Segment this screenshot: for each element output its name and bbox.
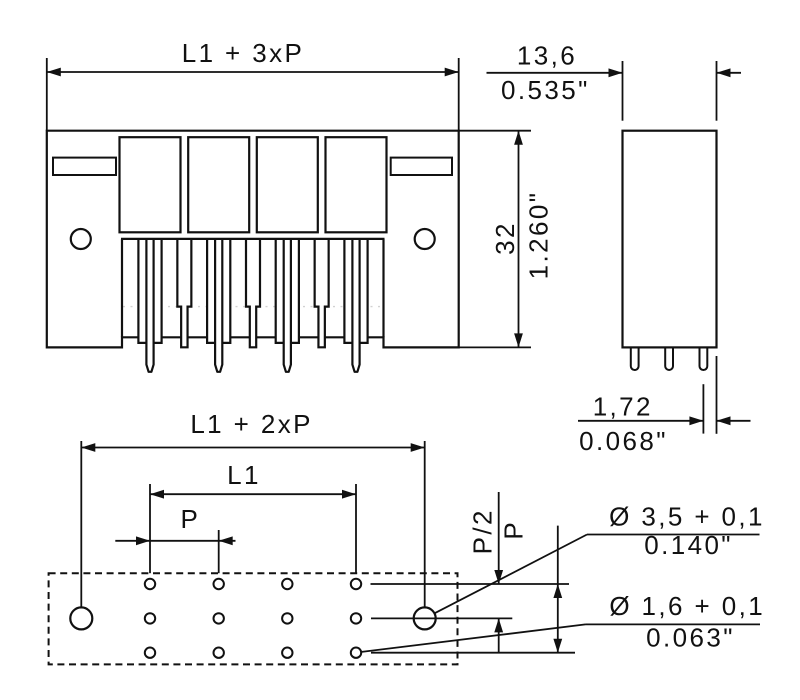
side view: solder pin 2 bbox=[665, 347, 673, 370]
footprint: solder hole col3 row2 bbox=[282, 613, 292, 623]
dim P: right tail line bbox=[219, 540, 236, 542]
footprint: solder hole col1 row3 bbox=[145, 648, 155, 658]
dim P vertical: up arrow bbox=[553, 584, 562, 598]
footprint: solder hole col4 row3 bbox=[351, 648, 361, 658]
front view: solder pin 1 bbox=[146, 239, 153, 372]
dim 13,6: right tail line bbox=[717, 72, 742, 74]
side view: housing body bbox=[623, 131, 717, 348]
dim 1,72: right tail line bbox=[717, 420, 751, 422]
dim P: mid line bbox=[150, 540, 219, 542]
front view: comb right wall bbox=[382, 239, 384, 337]
svg-text:P: P bbox=[499, 520, 529, 540]
front view: comb left wall bbox=[121, 239, 123, 337]
front view: solder pin 2 bbox=[215, 239, 222, 372]
front view: stepped peg 3 bbox=[315, 239, 329, 347]
dim P/2: lower line bbox=[498, 618, 500, 653]
svg-text:13,6: 13,6 bbox=[517, 40, 577, 70]
footprint: solder hole col3 row3 bbox=[282, 648, 292, 658]
label Ø1,6: underline bbox=[586, 623, 761, 625]
svg-text:L1: L1 bbox=[227, 460, 261, 490]
dim L1+3xP: right extension line bbox=[458, 58, 460, 131]
dim P: right arrow bbox=[219, 536, 233, 545]
dim 1,72: left tail line bbox=[578, 420, 703, 422]
dim 1,72: right arrow bbox=[717, 416, 731, 425]
dim 32: bottom extension line bbox=[459, 346, 531, 348]
dim 13,6: left extension line bbox=[622, 61, 624, 121]
front view: comb top edge line bbox=[121, 238, 385, 240]
svg-text:1,72: 1,72 bbox=[593, 391, 653, 421]
svg-text:P/2: P/2 bbox=[468, 508, 498, 554]
dim L1+2xP: dimension line bbox=[81, 447, 424, 449]
dim P/2: up arrow bbox=[494, 618, 503, 632]
dim 32: bottom arrow bbox=[514, 333, 523, 347]
footprint: solder hole col3 row1 bbox=[282, 579, 292, 589]
front view: contact sleeve 3 bbox=[276, 239, 299, 343]
footprint: solder hole col1 row1 bbox=[145, 579, 155, 589]
svg-text:0.535": 0.535" bbox=[501, 75, 590, 105]
footprint: solder hole col2 row2 bbox=[214, 613, 224, 623]
dim L1+3xP: left extension line bbox=[46, 58, 48, 131]
svg-text:P: P bbox=[181, 504, 201, 534]
footprint: left mounting hole bbox=[70, 607, 92, 629]
front view: plug block 2 bbox=[188, 137, 249, 232]
dim 32: top arrow bbox=[514, 131, 523, 145]
dim L1: right arrow bbox=[342, 490, 356, 499]
svg-text:0.140": 0.140" bbox=[644, 530, 733, 560]
front view: stepped peg 1 bbox=[177, 239, 191, 347]
svg-text:Ø 1,6 + 0,1: Ø 1,6 + 0,1 bbox=[609, 591, 765, 621]
front view: solder pin 4 bbox=[352, 239, 359, 372]
dim 1,72: edge extension line bbox=[716, 356, 718, 434]
side view: solder pin 1 bbox=[631, 347, 639, 370]
leader: hole row1 reference line bbox=[371, 583, 570, 585]
footprint: solder hole col4 row1 bbox=[351, 579, 361, 589]
footprint: dashed board outline bbox=[49, 573, 458, 664]
dim L1+2xP: left extension line bbox=[80, 441, 82, 607]
svg-text:1.260": 1.260" bbox=[524, 191, 554, 280]
front view: left mounting hole bbox=[71, 229, 91, 249]
side view: solder pin 3 bbox=[700, 347, 708, 370]
front view: plug block 4 bbox=[326, 137, 387, 232]
label Ø1,6: diagonal leader bbox=[362, 624, 586, 652]
dim 13,6: right arrow bbox=[717, 68, 731, 77]
svg-text:0.068": 0.068" bbox=[579, 426, 668, 456]
footprint: solder hole col2 row3 bbox=[214, 648, 224, 658]
dim L1+2xP: right extension line bbox=[424, 441, 426, 607]
dim 32: top extension line bbox=[459, 130, 531, 132]
dim 13,6: left tail line bbox=[487, 72, 623, 74]
dim L1+3xP: left arrow bbox=[47, 68, 61, 77]
dim 13,6: left arrow bbox=[609, 68, 623, 77]
front view: stepped peg 2 bbox=[246, 239, 260, 347]
dim L1+2xP: left arrow bbox=[81, 443, 95, 452]
dim P: left arrow bbox=[136, 536, 150, 545]
dim L1+2xP: right arrow bbox=[411, 443, 425, 452]
dim 1,72: pin-center extension line bbox=[702, 384, 704, 433]
front view: left latch slot bbox=[53, 158, 116, 175]
front view: contact sleeve 2 bbox=[207, 239, 230, 343]
svg-text:32: 32 bbox=[490, 221, 520, 255]
dim L1: left arrow bbox=[150, 490, 164, 499]
footprint: solder hole col1 row2 bbox=[145, 613, 155, 623]
dim L1: left extension line bbox=[149, 484, 151, 573]
dim P vertical: down arrow bbox=[553, 639, 562, 653]
dim L1+3xP: right arrow bbox=[445, 68, 459, 77]
front view: faint hidden line across pin comb bbox=[123, 306, 383, 308]
leader: hole row3 reference line bbox=[371, 652, 575, 654]
label Ø3,5: diagonal leader bbox=[435, 535, 587, 614]
footprint: solder hole col2 row1 bbox=[214, 579, 224, 589]
svg-text:L1 + 2xP: L1 + 2xP bbox=[190, 409, 313, 439]
svg-text:0.063": 0.063" bbox=[646, 622, 735, 652]
dim P/2: down arrow bbox=[494, 570, 503, 584]
front view: plug block 1 bbox=[120, 137, 181, 232]
svg-text:Ø 3,5 + 0,1: Ø 3,5 + 0,1 bbox=[609, 501, 765, 531]
front view: plug block 3 bbox=[257, 137, 318, 232]
front view: contact sleeve 1 bbox=[138, 239, 161, 343]
dim P: left tail line bbox=[115, 540, 150, 542]
dim 1,72: left arrow bbox=[689, 416, 703, 425]
label Ø3,5: underline bbox=[587, 534, 760, 536]
dim 32: dimension line bbox=[518, 131, 520, 348]
front view: connector housing outline bbox=[47, 131, 459, 348]
dim 13,6: right extension line bbox=[716, 61, 718, 121]
svg-text:L1 + 3xP: L1 + 3xP bbox=[182, 38, 305, 68]
dim L1+3xP: dimension line bbox=[47, 71, 459, 73]
dim P/2: upper line bbox=[498, 492, 500, 584]
dim P vertical: dimension line bbox=[557, 526, 559, 653]
dim L1: dimension line bbox=[150, 493, 356, 495]
dim P: right extension line bbox=[218, 530, 220, 573]
leader: hole row2 reference line bbox=[371, 617, 512, 619]
front view: right latch slot bbox=[391, 158, 452, 175]
front view: solder pin 3 bbox=[284, 239, 291, 372]
footprint: solder hole col4 row2 bbox=[351, 613, 361, 623]
front view: contact sleeve 4 bbox=[344, 239, 367, 343]
footprint: right mounting hole bbox=[414, 607, 436, 629]
front view: right mounting hole bbox=[415, 229, 435, 249]
dim L1: right extension line bbox=[355, 484, 357, 573]
